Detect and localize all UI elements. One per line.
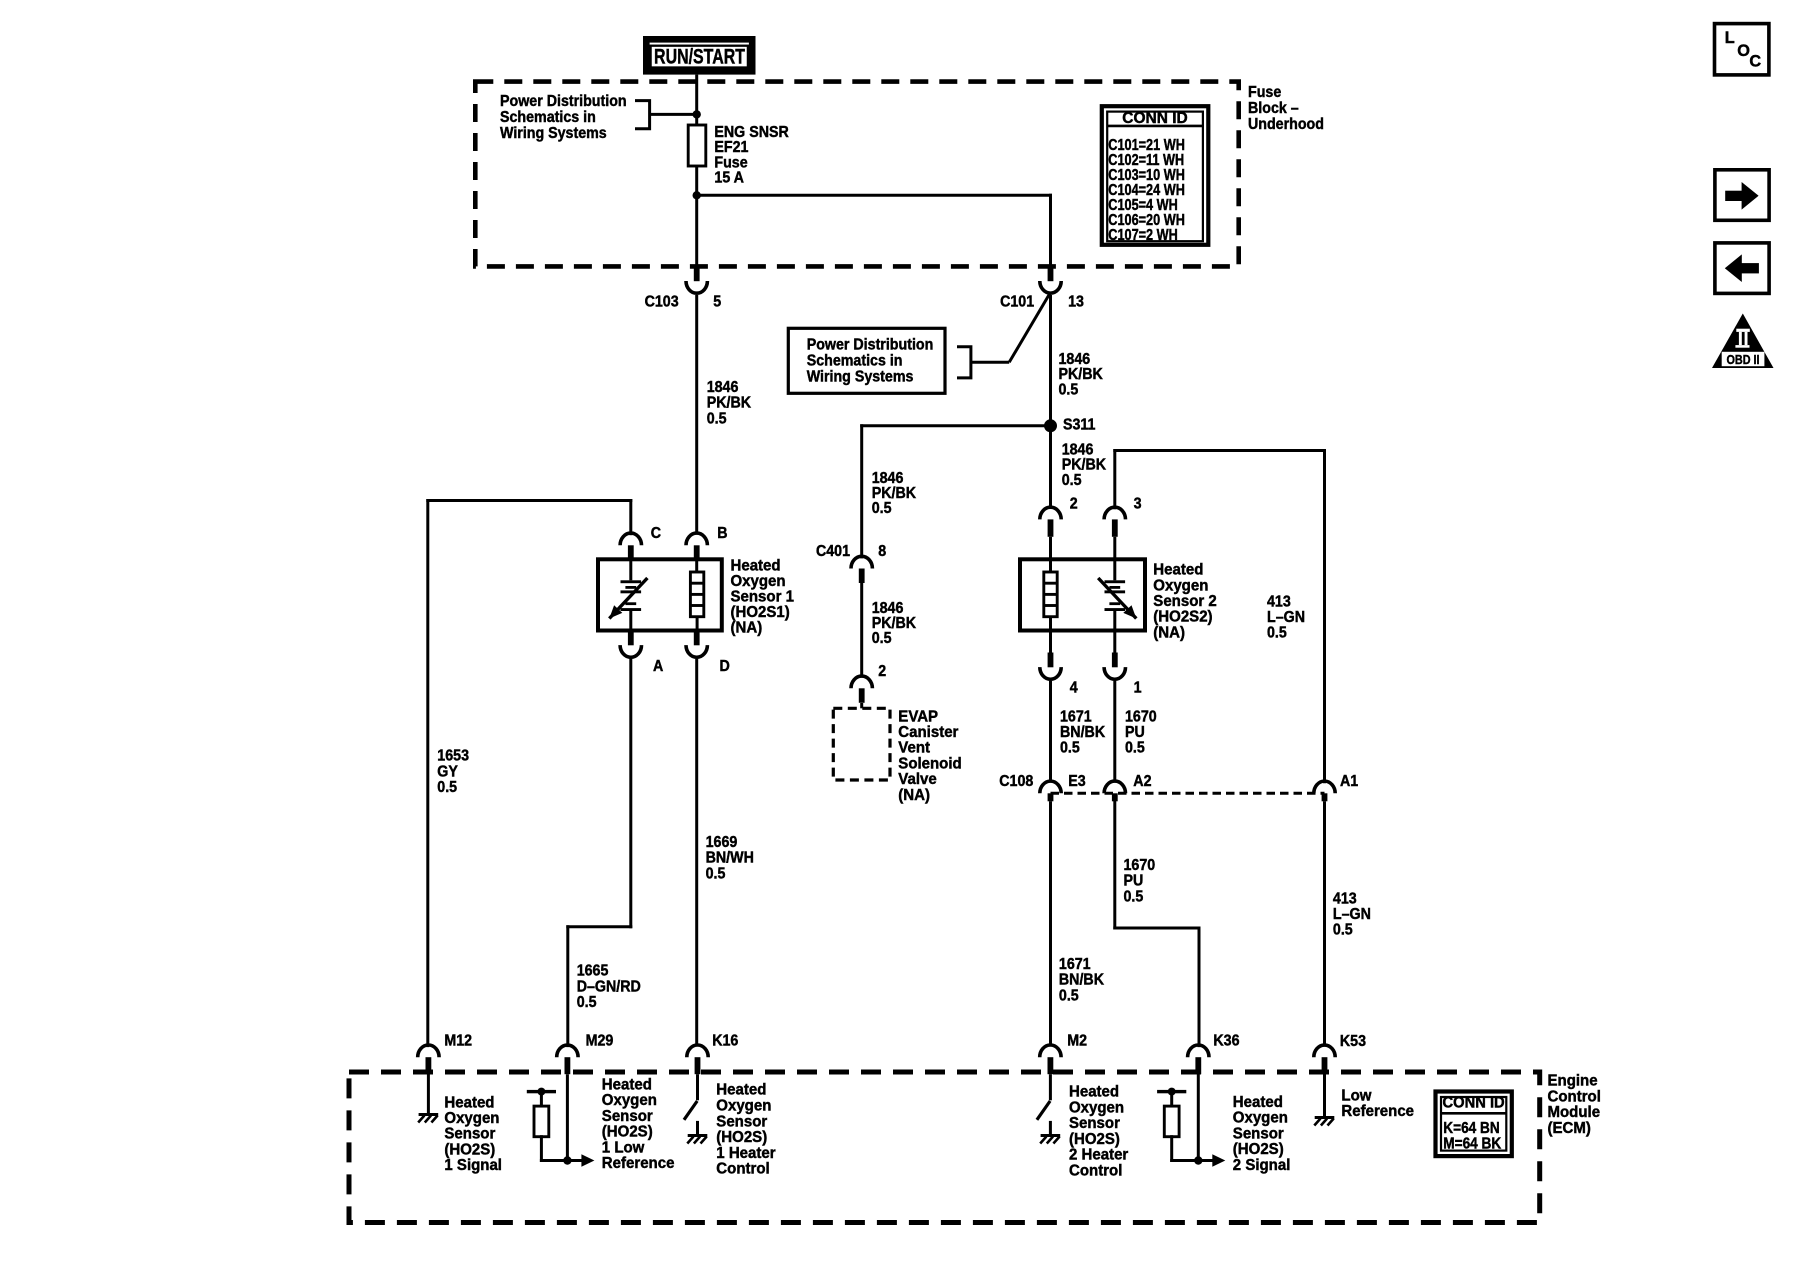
wire 1669 BN/WH: HO2S1 pin D down to ECM K16 — [695, 659, 698, 1046]
wire 1670 PU pin1 down to C108 A2 — [1113, 681, 1116, 782]
wire fuse output — [695, 166, 698, 195]
connector ECM pin K53 — [1314, 1045, 1335, 1074]
wire branch down to C101 — [1049, 195, 1052, 266]
svg-text:C108: C108 — [999, 774, 1033, 791]
HO2S2 sensor element symbol — [1098, 578, 1136, 619]
connector EVAP pin 2 — [851, 676, 872, 703]
wire K16 to heater control switch — [696, 1074, 699, 1100]
svg-text:B: B — [717, 526, 728, 543]
svg-text:C103: C103 — [645, 294, 679, 311]
wire K36 to signal node — [1197, 1074, 1200, 1160]
connector C108 pin A1 — [1314, 781, 1335, 801]
wire RUN/START feed down to fuse — [695, 75, 698, 125]
wire 413 L-GN A1 down to ECM K53 — [1323, 801, 1326, 1045]
svg-text:M29: M29 — [586, 1033, 614, 1050]
HO2S2 heater element — [1044, 572, 1057, 617]
svg-text:C401: C401 — [816, 544, 850, 561]
bracket for power distribution note 1 — [635, 101, 650, 129]
wire 1665 D-GN/RD: HO2S1 pin A down to ECM M29 — [629, 659, 632, 927]
svg-text:CONN ID: CONN ID — [1443, 1094, 1505, 1111]
connector C108 dashed boundary — [1051, 792, 1325, 795]
svg-text:OBD II: OBD II — [1726, 352, 1759, 367]
connector C108 pin E3 — [1040, 781, 1061, 801]
svg-text:5: 5 — [713, 294, 721, 311]
svg-text:C: C — [651, 526, 662, 543]
wire 1671 BN/BK pin4 down to C108 E3 — [1049, 681, 1052, 782]
splice S311 — [1044, 419, 1057, 432]
switch HO2S1 heater control (K16) — [684, 1101, 698, 1134]
wire pin3 into HO2S2 — [1113, 537, 1116, 560]
switch HO2S2 heater control (M2) — [1037, 1101, 1051, 1134]
svg-text:8: 8 — [878, 544, 886, 561]
svg-text:M12: M12 — [444, 1033, 472, 1050]
wire 1846 PK/BK from C101 through S311 to HO2S2 pin 2 — [1049, 295, 1052, 508]
wire 1653 GY branch: HO2S1 pin C over and down to ECM M12 — [428, 499, 631, 502]
LOC legend box — [1715, 24, 1769, 75]
svg-text:C101: C101 — [1000, 294, 1034, 311]
svg-text:CONN ID: CONN ID — [1122, 110, 1187, 127]
svg-text:Heated Oxygen Sensor (HO2S) 2: Heated Oxygen Sensor (HO2S) 2 Signal — [1233, 1094, 1292, 1174]
svg-text:K=64 BN M=64 BK: K=64 BN M=64 BK — [1443, 1120, 1503, 1152]
wire 1671 BN/BK E3 down to ECM M2 — [1049, 801, 1052, 1045]
connector HO2S1 pin D — [686, 631, 707, 658]
svg-text:K36: K36 — [1213, 1033, 1239, 1050]
wire C401 to EVAP solenoid — [860, 583, 863, 677]
connector HO2S1 pin C — [620, 533, 641, 559]
fuse ENG SNSR EF21 15A — [688, 125, 706, 166]
wire fuse output to C103 — [695, 195, 698, 266]
pull-up resistor + signal arrow (K36) — [1157, 1088, 1225, 1167]
svg-text:RUN/START: RUN/START — [654, 44, 745, 68]
connector HO2S2 pin 3 — [1104, 507, 1125, 537]
RUN/START power feed label box — [646, 39, 752, 71]
connector C108 pin A2 — [1104, 781, 1125, 801]
svg-text:2: 2 — [878, 663, 886, 680]
bracket for power distribution note 2 — [957, 347, 971, 378]
CONN ID table (ECM) — [1436, 1092, 1512, 1157]
connector ECM pin M2 — [1040, 1045, 1061, 1074]
leader line to C101 wire — [1009, 294, 1050, 363]
EVAP Canister Vent Solenoid Valve dashed box — [833, 708, 890, 780]
svg-text:2: 2 — [1070, 496, 1078, 513]
connector HO2S1 pin B — [686, 533, 707, 559]
svg-text:A: A — [653, 659, 664, 676]
ground low reference (K53) — [1314, 1116, 1334, 1126]
wire 1670 PU A2 jog to ECM K36 — [1113, 801, 1116, 928]
HO2S2 Heated Oxygen Sensor 2 box — [1020, 559, 1145, 630]
connector C401 pin 8 — [851, 556, 872, 583]
connector HO2S1 pin A — [620, 631, 641, 658]
Fuse Block - Underhood dashed outline — [475, 82, 1238, 267]
switch HO2S1 heater control (K16) ground — [687, 1134, 707, 1144]
svg-text:3: 3 — [1134, 496, 1142, 513]
svg-text:Heated Oxygen Sensor (HO2S) 1: Heated Oxygen Sensor (HO2S) 1 Signal — [444, 1094, 503, 1174]
svg-text:K53: K53 — [1340, 1034, 1366, 1051]
svg-text:L: L — [1725, 29, 1735, 47]
svg-text:O: O — [1737, 42, 1750, 60]
wire 1846 PK/BK from C103 to HO2S1 pin B — [695, 295, 698, 534]
svg-text:C101=21 WH C102=11 WH C103=10: C101=21 WH C102=11 WH C103=10 WH C104=24… — [1108, 137, 1188, 244]
HO2S1 Heated Oxygen Sensor 1 box — [598, 559, 722, 630]
svg-text:A1: A1 — [1340, 774, 1358, 791]
forward-arrow nav box — [1715, 170, 1769, 221]
svg-text:A2: A2 — [1133, 774, 1151, 791]
svg-text:C: C — [1749, 53, 1761, 71]
wire pin2 into HO2S2 — [1049, 537, 1052, 560]
wire M29 to low-reference node — [566, 1074, 569, 1160]
ground HO2S1 signal (M12) — [418, 1113, 438, 1123]
svg-text:13: 13 — [1068, 294, 1084, 311]
connector ECM pin M12 — [418, 1045, 439, 1074]
svg-text:K16: K16 — [712, 1033, 738, 1050]
pull-up resistor + reference arrow (M29) — [527, 1088, 595, 1167]
svg-text:S311: S311 — [1063, 417, 1095, 434]
back-arrow nav box — [1715, 243, 1769, 294]
HO2S1 sensor element symbol — [609, 578, 647, 619]
HO2S1 heater element — [690, 572, 703, 617]
wire down to C401 — [860, 426, 863, 557]
junction on RUN/START feed — [693, 110, 701, 118]
wire S311 to EVAP branch — [862, 424, 1051, 427]
connector C101 pin 13 — [1040, 266, 1061, 293]
connector HO2S2 pin 1 — [1104, 653, 1125, 680]
svg-text:D: D — [720, 659, 731, 676]
connector ECM pin K16 — [687, 1045, 708, 1074]
CONN ID table (fuse block) — [1102, 106, 1209, 245]
OBD II emissions triangle — [1712, 314, 1774, 369]
svg-text:M2: M2 — [1067, 1033, 1087, 1050]
wire K53 to internal ground — [1323, 1074, 1326, 1116]
junction fuse output split — [693, 191, 701, 199]
connector HO2S2 pin 2 — [1040, 507, 1061, 537]
connector HO2S2 pin 4 — [1040, 653, 1061, 680]
svg-text:1: 1 — [1134, 680, 1142, 697]
svg-text:E3: E3 — [1068, 774, 1085, 791]
wire M2 to heater control switch — [1049, 1074, 1052, 1100]
switch HO2S2 heater control (M2) ground — [1040, 1134, 1060, 1144]
connector C103 pin 5 — [686, 266, 707, 293]
wire M12 to internal ground — [427, 1074, 430, 1113]
connector ECM pin M29 — [557, 1045, 578, 1074]
note box Power Distribution Schematics in Wiring Systems — [788, 328, 945, 393]
connector ECM pin K36 — [1188, 1045, 1209, 1074]
svg-text:4: 4 — [1070, 680, 1079, 697]
wire HO2S2 pin 3 up and over to ECM K53 (413 L-GN) — [1113, 451, 1116, 508]
Engine Control Module dashed outline — [349, 1072, 1540, 1223]
wire fuse output to C101 branch — [697, 194, 1051, 197]
